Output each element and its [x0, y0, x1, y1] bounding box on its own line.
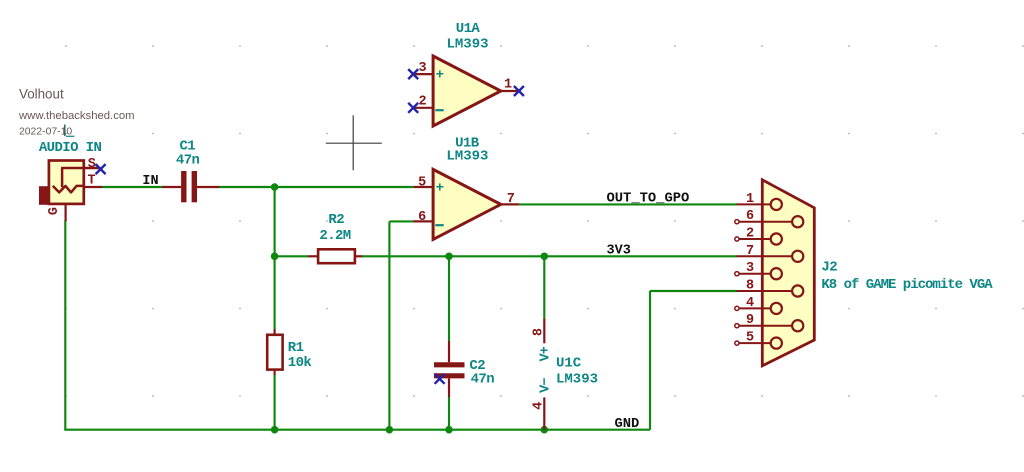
connector J2 pin 6: [735, 209, 804, 227]
connector J2 pin 7: [737, 244, 804, 262]
svg-text:3: 3: [746, 261, 754, 276]
resistor R2 right lead: [355, 255, 362, 257]
wire J2 pin 8 horizontal: [650, 290, 737, 292]
connector J2 pin 4: [735, 296, 782, 314]
wire U1C column: 3V3 junction to U1C pin 8: [543, 256, 545, 318]
junction on GND rail at feedback column: [386, 426, 394, 434]
svg-text:8: 8: [532, 328, 547, 336]
audio jack tip contact zigzag: [53, 186, 84, 193]
audio jack pin T stub: [84, 186, 103, 188]
resistor R2 body: [318, 249, 355, 263]
connector J2 pin 9: [735, 313, 804, 331]
svg-text:+: +: [436, 68, 444, 84]
connector J2 pin 8: [737, 279, 804, 297]
audio jack AUDIO IN body: [49, 161, 84, 204]
svg-text:3: 3: [418, 61, 426, 76]
op-amp U1A pin 1 output stub: [501, 90, 519, 92]
audio jack sleeve bar: [39, 186, 49, 205]
op-amp U1B pin 7 output stub: [501, 203, 519, 205]
op-amp U1A pin 2 stub: [413, 107, 433, 109]
op-amp U1C power pin 8 (V+) stub: [543, 318, 545, 343]
svg-text:4: 4: [532, 402, 547, 410]
connector J2 pin 2: [735, 227, 782, 245]
wire R1 column top: R2 junction to R1 top lead: [274, 256, 276, 329]
connector J2 pin 1: [737, 192, 782, 210]
wire U1B pin 6 horizontal stub wire: [389, 220, 413, 222]
svg-text:10k: 10k: [288, 355, 312, 371]
op-amp U1A minus pin name: [435, 109, 443, 111]
no-connect X on U1A pin 1: [514, 86, 524, 96]
svg-text:LM393: LM393: [446, 37, 488, 53]
svg-text:R1: R1: [288, 340, 304, 356]
svg-text:AUDIO IN: AUDIO IN: [39, 140, 102, 156]
svg-text:T: T: [87, 173, 95, 188]
wire net 3V3: R2 right lead to J2 pin 7: [362, 255, 738, 257]
svg-text:47n: 47n: [471, 371, 495, 387]
resistor R2 left lead: [308, 255, 318, 257]
svg-text:V+: V+: [539, 346, 554, 361]
svg-text:3V3: 3V3: [607, 243, 631, 258]
svg-text:2: 2: [418, 95, 426, 110]
no-connect style X marker at C2 bottom plate: [435, 374, 445, 384]
junction on 3V3 row at C2 column: [445, 252, 453, 260]
junction on 3V3 row at R1 column: [271, 252, 279, 260]
svg-text:OUT_TO_GPO: OUT_TO_GPO: [607, 192, 690, 207]
svg-text:47n: 47n: [176, 153, 200, 169]
op-amp U1A pin 3 stub: [413, 73, 433, 75]
capacitor C2 bottom lead: [448, 378, 450, 397]
wire net IN: jack T pin to C1 left lead: [102, 186, 163, 188]
wire R1 column bottom: R1 bottom lead to GND rail: [274, 375, 276, 430]
svg-text:LM393: LM393: [446, 149, 488, 165]
resistor R1 body: [267, 335, 282, 370]
op-amp U1B body: [433, 169, 501, 239]
svg-text:6: 6: [746, 209, 754, 224]
wire GND rail horizontal: [64, 429, 650, 431]
svg-text:5: 5: [746, 331, 754, 346]
junction on GND rail at C2 column: [445, 426, 453, 434]
svg-text:J2: J2: [821, 260, 837, 276]
connector J2 pin 3: [735, 261, 782, 279]
junction on IN wire at R1/R2 column: [271, 183, 279, 191]
svg-text:www.thebackshed.com: www.thebackshed.com: [18, 110, 135, 122]
svg-text:G: G: [47, 207, 62, 215]
svg-text:1: 1: [504, 78, 512, 93]
wire vertical from IN junction down to R2 row: [274, 187, 276, 256]
wire left vertical: jack G pin down to GND rail: [64, 221, 66, 430]
capacitor C1 right lead: [197, 186, 219, 188]
svg-text:5: 5: [418, 176, 426, 191]
wire C2 column top: 3V3 junction to C2 top lead: [448, 256, 450, 341]
no-connect X on U1A pin 3: [408, 69, 418, 79]
audio jack switch contact from S pin: [62, 168, 99, 187]
svg-text:IN: IN: [142, 174, 158, 189]
resistor R1 bottom lead: [274, 370, 276, 375]
svg-text:2.2M: 2.2M: [319, 228, 350, 244]
capacitor C2 top lead: [448, 341, 450, 362]
wire net IN: C1 right lead to U1B pin 5: [219, 186, 414, 188]
title text date 2022-07-10 with edit caret: [19, 125, 75, 138]
svg-text:K8 of GAME picomite VGA: K8 of GAME picomite VGA: [821, 277, 993, 293]
wire feedback vertical: U1B pin 6 column down to GND rail: [388, 221, 390, 429]
svg-text:+: +: [436, 181, 444, 197]
junction on GND rail at U1C column: [541, 426, 549, 434]
svg-text:GND: GND: [615, 417, 640, 432]
svg-text:4: 4: [746, 296, 754, 311]
wire GND riser vertical to J2 pin 8 row: [649, 291, 651, 430]
op-amp U1B pin 5 stub: [413, 186, 433, 188]
capacitor C2 plates: [434, 365, 465, 376]
op-amp U1B pin 6 stub: [413, 220, 433, 222]
svg-text:9: 9: [746, 313, 754, 328]
op-amp U1B minus pin name: [435, 224, 443, 226]
capacitor C1 left lead: [162, 186, 181, 188]
svg-text:2: 2: [746, 227, 754, 242]
svg-text:U1C: U1C: [556, 356, 582, 372]
junction on 3V3 row at U1C column: [541, 252, 549, 260]
no-connect X on jack S pin: [96, 164, 106, 174]
svg-text:6: 6: [418, 210, 426, 225]
svg-text:8: 8: [746, 279, 754, 294]
svg-text:7: 7: [746, 244, 754, 259]
op-amp U1C power pin 4 (V-) stub: [543, 397, 545, 429]
svg-text:R2: R2: [328, 212, 344, 228]
cursor crosshair: [326, 115, 382, 170]
svg-text:1: 1: [746, 192, 754, 207]
audio jack pin G stub: [64, 204, 66, 221]
connector J2 body (DB9): [762, 180, 814, 366]
wire R2 row left: junction to R2 left lead: [275, 255, 309, 257]
connector J2 pin 5: [735, 331, 782, 349]
no-connect X on U1A pin 2: [408, 103, 418, 113]
svg-text:7: 7: [507, 192, 515, 207]
svg-text:V−: V−: [539, 378, 554, 393]
op-amp U1A body: [433, 56, 501, 126]
svg-text:LM393: LM393: [556, 372, 598, 388]
wire C2 column bottom: C2 bottom lead to GND rail: [448, 397, 450, 430]
junction on GND rail at R1 column: [271, 426, 279, 434]
svg-text:U1A: U1A: [456, 21, 481, 37]
svg-text:Volhout: Volhout: [19, 87, 64, 102]
svg-text:S: S: [88, 157, 96, 172]
capacitor C1 plates: [184, 171, 195, 202]
wire net OUT_TO_GP0: U1B output to J2 pin 1: [519, 203, 737, 205]
resistor R1 top lead: [274, 329, 276, 335]
